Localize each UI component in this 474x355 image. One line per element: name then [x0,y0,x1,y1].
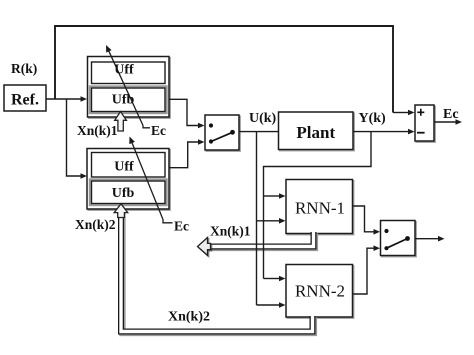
svg-text:Ec: Ec [443,107,459,122]
svg-text:Ec: Ec [151,123,166,138]
svg-text:R(k): R(k) [11,61,37,76]
svg-text:Uff: Uff [114,63,134,78]
svg-text:Uff: Uff [114,160,134,175]
svg-text:Ec: Ec [174,219,189,234]
svg-text:Y(k): Y(k) [359,111,387,126]
svg-text:Xn(k)2: Xn(k)2 [75,217,116,232]
svg-text:Ufb: Ufb [112,93,135,108]
svg-text:RNN-1: RNN-1 [295,199,345,218]
svg-text:Xn(k)1: Xn(k)1 [77,123,118,138]
svg-text:Plant: Plant [296,123,335,142]
svg-text:Ref.: Ref. [11,92,39,109]
svg-text:Xn(k)1: Xn(k)1 [210,224,251,239]
svg-text:RNN-2: RNN-2 [295,282,345,301]
svg-text:Ufb: Ufb [112,186,135,201]
svg-text:U(k): U(k) [249,111,277,126]
svg-text:Xn(k)2: Xn(k)2 [168,309,210,324]
